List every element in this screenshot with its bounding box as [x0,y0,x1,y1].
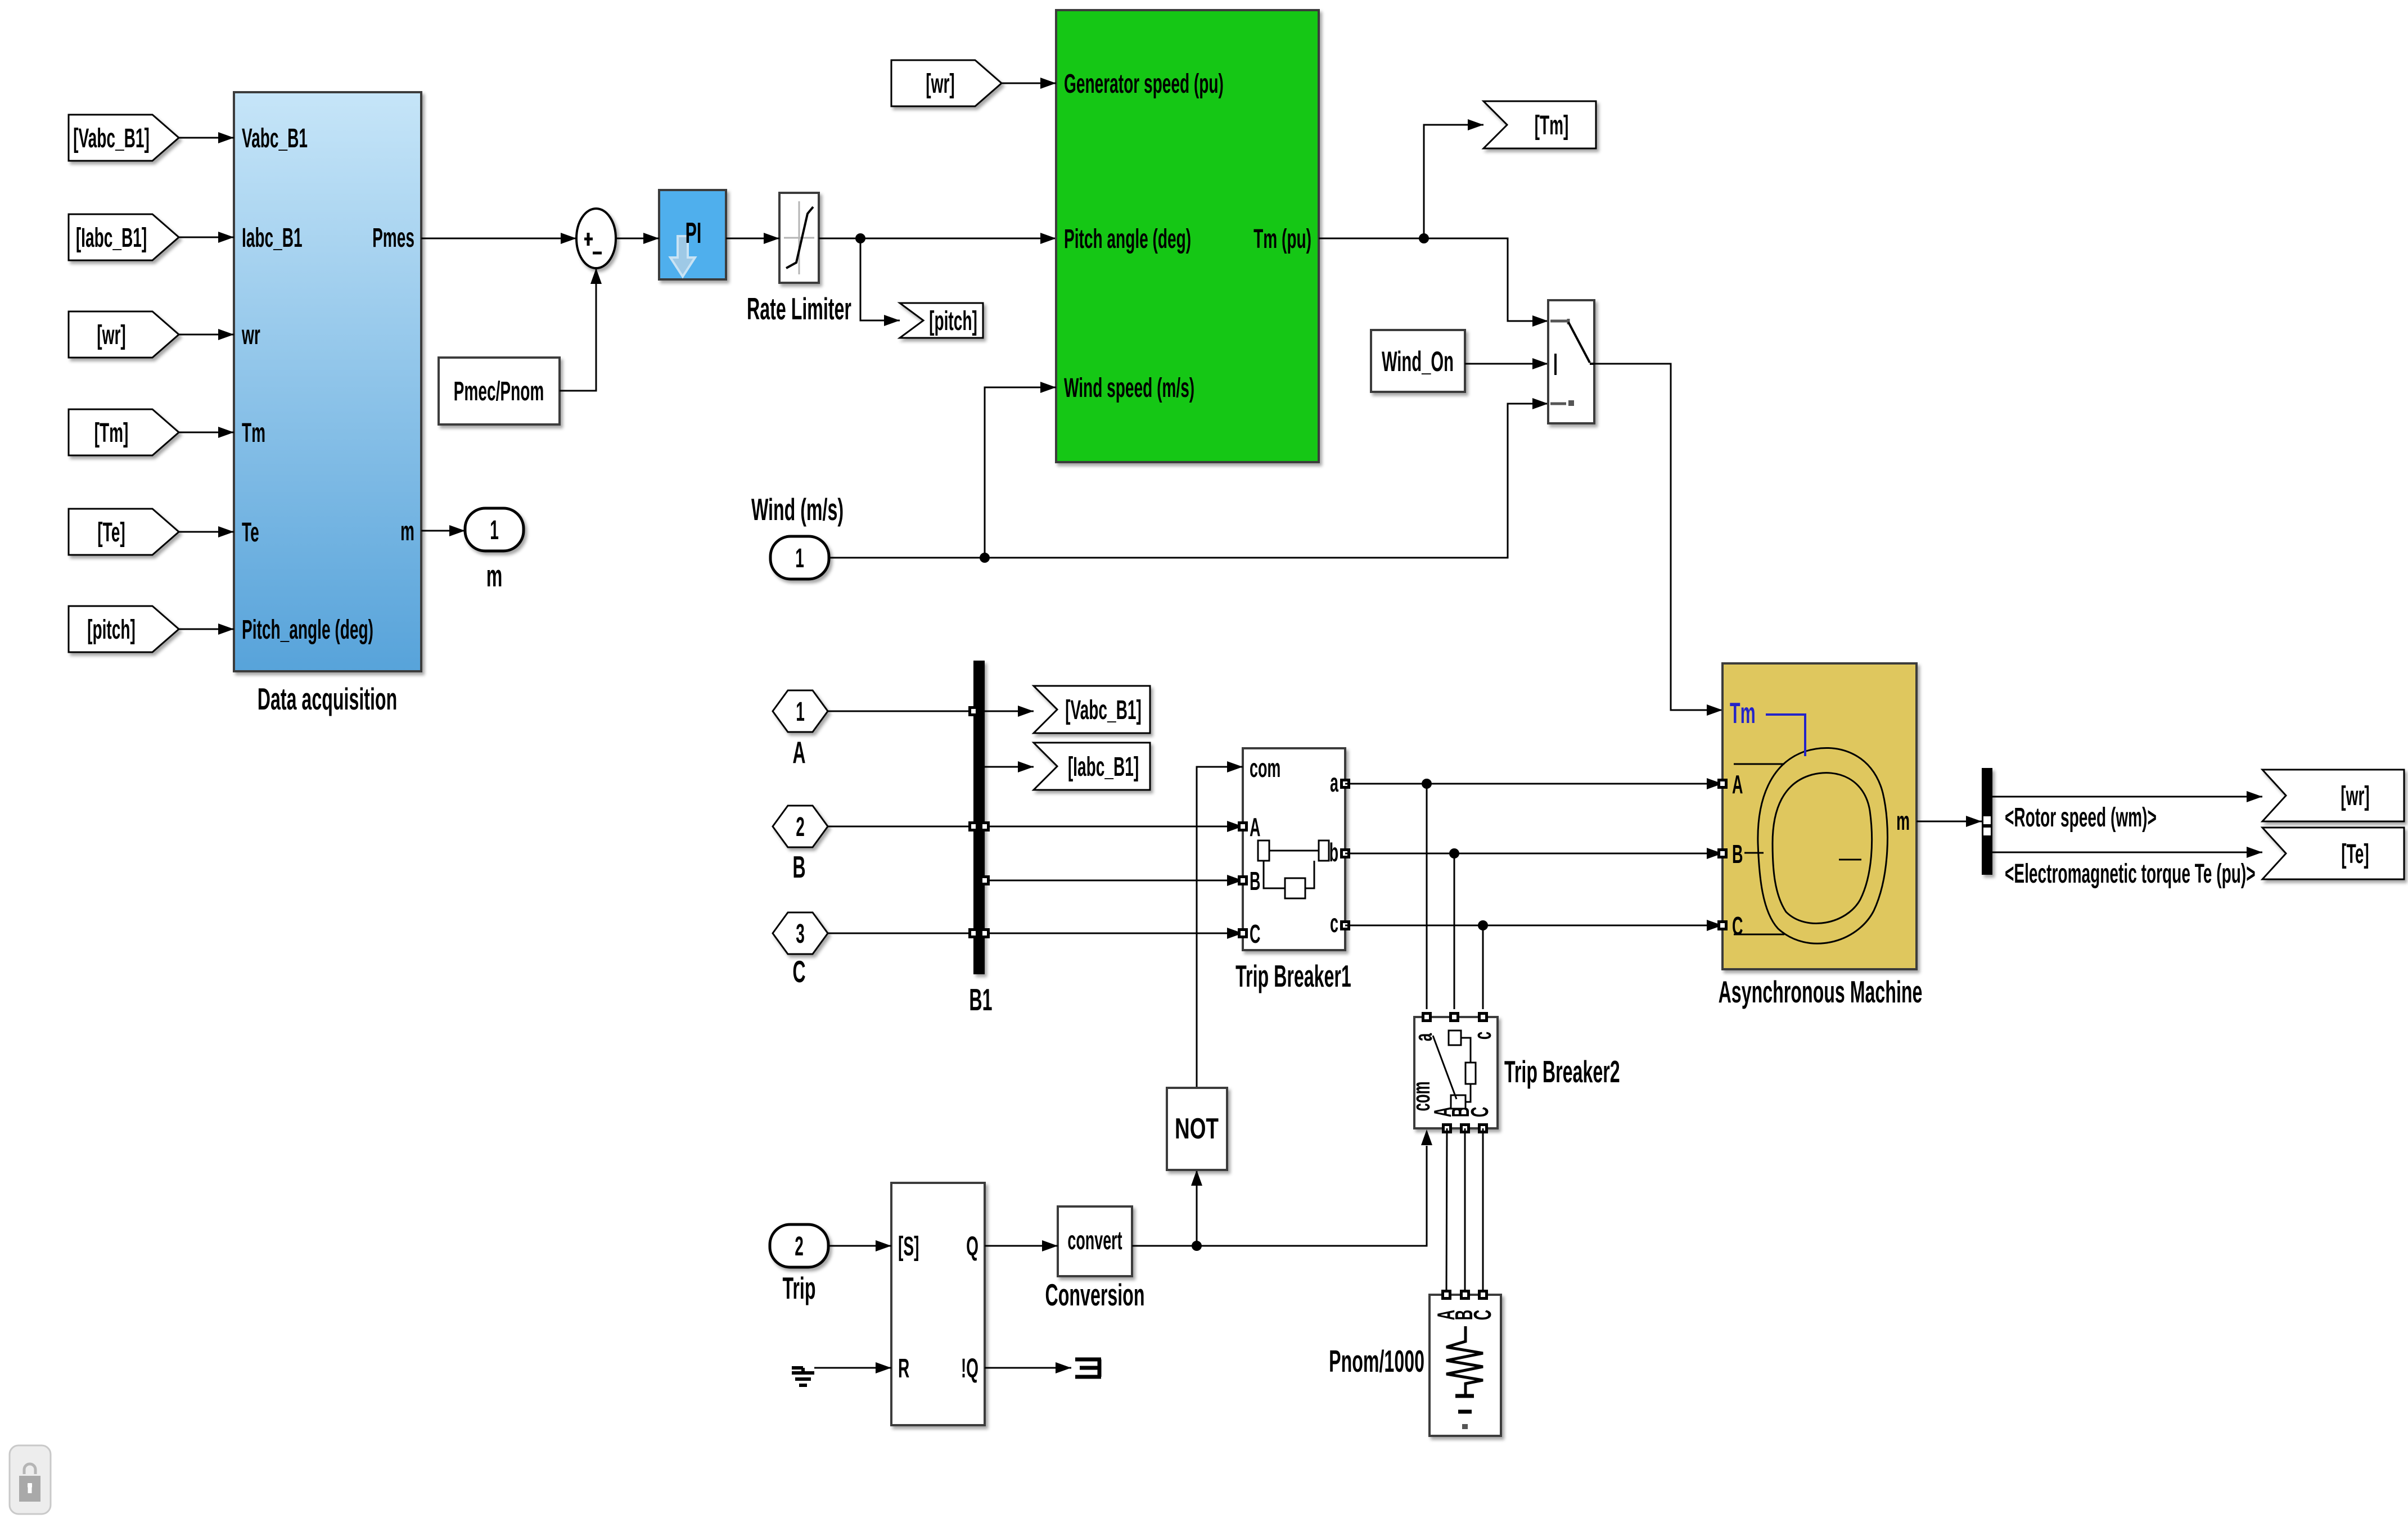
svg-text:Wind speed (m/s): Wind speed (m/s) [1064,373,1194,403]
svg-text:R: R [898,1353,909,1384]
wire Trip Breaker2 A to load [1446,1128,1447,1295]
outport 1 m [465,508,524,551]
svg-text:Data acquisition: Data acquisition [258,681,397,716]
wire Q to Conversion [985,1245,1058,1247]
svg-text:3: 3 [796,919,805,949]
wire junction to goto [Tm] [1424,125,1483,238]
subsystem block Data acquisition [234,92,421,671]
wire [wr] to Generator speed [1002,83,1056,84]
svg-text:com: com [1250,753,1280,782]
Three-Phase load block Pnom/1000 [1430,1295,1501,1436]
junction Tm output [1419,233,1429,243]
inport A hexagon 1 [773,690,828,732]
Trip Breaker2 icon [1449,1031,1461,1045]
load resistor icon [1446,1326,1483,1395]
wire [Vabc_B1] to Data acquisition [179,137,234,139]
lock icon [10,1445,51,1514]
Data Type Conversion block [1058,1206,1132,1276]
NOT logical operator block [1167,1088,1227,1170]
from tag [wr] [69,311,179,358]
svg-text:A: A [1250,812,1260,841]
svg-text:C: C [1732,911,1743,940]
Trip Breaker2 port squares [1422,1012,1432,1022]
Trip Breaker2 block [1414,1017,1498,1128]
svg-text:Trip Breaker1: Trip Breaker1 [1235,959,1351,993]
wire B1 to goto [Vabc_B1] [985,711,1034,712]
svg-text:1: 1 [795,543,804,573]
wire Trip Breaker1 c to machine C [1345,925,1722,927]
Trip Breaker1 port squares [1238,821,1248,831]
wire Trip Breaker2 C to load [1482,1128,1484,1295]
svg-text:C: C [1468,1310,1496,1321]
wire junction a to Trip Breaker2 [1426,784,1428,1009]
bus selector bar [1982,768,1992,875]
svg-text:Tm: Tm [1730,697,1756,730]
svg-text:B: B [792,849,805,884]
goto tag [Vabc_B1] [1034,686,1150,733]
svg-text:[wr]: [wr] [2341,781,2369,811]
goto tag [Te] right [2262,828,2404,879]
svg-text:B1: B1 [969,982,992,1017]
svg-text:PI: PI [686,217,702,250]
svg-text:c: c [1330,909,1338,937]
svg-text:A: A [1732,770,1743,798]
svg-text:C: C [792,954,805,989]
svg-text:[Iabc_B1]: [Iabc_B1] [1068,752,1139,782]
svg-text:[Te]: [Te] [97,517,125,548]
constant block Wind_On [1371,330,1465,392]
wire Data acquisition m to outport [421,530,465,532]
from tag [Tm] [69,409,179,455]
from tag [wr] top [891,60,1002,106]
svg-text:[Iabc_B1]: [Iabc_B1] [76,223,147,253]
wire [wr] to Data acquisition [179,334,234,336]
wire bus selector to goto [Te] [1992,852,2262,853]
svg-text:Wind (m/s): Wind (m/s) [751,492,844,527]
goto tag [pitch] [900,303,983,338]
terminator on !Q [985,1367,1071,1369]
junction on wind wire [980,553,990,563]
machine Tm label and blue lead [1730,697,1756,730]
Trip Breaker2 rotated labels [1409,1033,1437,1041]
wire Wind to Wind speed port and switch [829,404,1548,558]
wire C to B1 [828,933,973,934]
svg-text:Tm (pu): Tm (pu) [1253,224,1311,254]
svg-text:m: m [1896,806,1910,835]
svg-text:C: C [1465,1107,1494,1118]
switch block [1548,300,1594,423]
svg-text:com: com [1407,1082,1435,1111]
svg-text:Conversion: Conversion [1045,1277,1145,1312]
svg-text:a: a [1330,768,1339,797]
S-R flip-flop block [891,1183,985,1425]
svg-text:Te: Te [242,517,259,548]
svg-text:Pmes: Pmes [372,223,414,253]
goto tag [wr] right [2262,770,2404,821]
wire switch output to Asynchronous Machine Tm [1594,364,1722,710]
load rotated labels [1432,1310,1460,1321]
wire Trip to S input [828,1245,891,1247]
svg-text:Trip: Trip [783,1271,816,1305]
Asynchronous Machine block [1722,663,1917,969]
wire A to B1 [828,711,973,712]
bus bar B1 [973,661,985,974]
wire B to B1 [828,826,973,828]
svg-text:<Electromagnetic torque Te (pu: <Electromagnetic torque Te (pu)> [2005,858,2256,889]
svg-text:B: B [1732,839,1743,868]
svg-text:2: 2 [796,812,805,842]
inport 2 Trip [770,1224,828,1267]
svg-text:Iabc_B1: Iabc_B1 [242,223,303,253]
sum block [576,209,616,268]
wire bus selector to goto [wr] [1992,796,2262,798]
wire junction c to Trip Breaker2 [1482,925,1484,1009]
svg-text:wr: wr [241,320,260,350]
wire Tm (pu) output [1319,238,1548,321]
svg-text:<Rotor speed (wm)>: <Rotor speed (wm)> [2005,802,2157,833]
wire NOT to Trip Breaker1 com [1197,767,1243,1088]
Trip Breaker1 icon [1258,840,1269,861]
svg-text:A: A [792,735,805,770]
inport B hexagon 2 [773,806,828,847]
machine port labels [1732,770,1743,798]
svg-text:[Vabc_B1]: [Vabc_B1] [1065,695,1142,725]
wire PI to Rate Limiter [726,238,779,239]
load port squares [1441,1290,1451,1300]
svg-text:[Tm]: [Tm] [94,418,129,448]
wire Pmec/Pnom to sum [560,268,596,391]
wire [pitch] to Data acquisition [179,629,234,630]
wire Pmes to sum [421,238,576,239]
svg-text:1: 1 [490,515,499,545]
svg-text:Generator speed (pu): Generator speed (pu) [1064,69,1224,99]
svg-text:[wr]: [wr] [926,69,954,99]
wire B1 to Trip Breaker1 C [985,933,1243,934]
svg-text:[pitch]: [pitch] [87,614,136,645]
junction below NOT [1192,1241,1202,1251]
wire Trip Breaker1 a to machine A [1345,783,1722,785]
svg-text:[Te]: [Te] [2341,839,2369,869]
svg-text:Trip Breaker2: Trip Breaker2 [1504,1054,1620,1089]
goto tag [Iabc_B1] [1034,743,1150,790]
svg-text:!Q: !Q [961,1353,978,1384]
svg-text:NOT: NOT [1175,1112,1219,1145]
svg-text:Rate Limiter: Rate Limiter [747,291,851,326]
svg-text:Q: Q [966,1231,978,1262]
svg-text:1: 1 [796,697,805,727]
wire [Iabc_B1] to Data acquisition [179,237,234,238]
svg-text:m: m [400,516,414,546]
Trip Breaker1 block [1243,748,1345,950]
svg-text:B: B [1250,866,1260,895]
wire Trip Breaker2 B to load [1464,1128,1466,1295]
svg-text:[Vabc_B1]: [Vabc_B1] [73,123,150,153]
svg-text:m: m [486,558,503,593]
wire machine m to bus selector [1917,821,1982,822]
junction c [1478,920,1488,930]
wire Trip Breaker1 b to machine B [1345,853,1722,855]
from tag [Iabc_B1] [69,214,179,260]
machine rotor stator icon [1758,748,1888,943]
wire [Te] to Data acquisition [179,531,234,533]
wire B1 to goto [Iabc_B1] [985,766,1034,768]
wire junction to NOT [1196,1170,1198,1246]
from tag [Te] [69,509,179,555]
junction b [1449,848,1459,858]
svg-text:[pitch]: [pitch] [929,306,977,336]
wire Conversion to Trip Breaker2 com [1132,1146,1427,1246]
inport C hexagon 3 [773,912,828,954]
wire junction b to Trip Breaker2 [1454,853,1455,1009]
wire junction to goto [pitch] [860,238,900,320]
svg-text:C: C [1250,919,1260,948]
wire Rate Limiter to Pitch angle port [819,238,1056,239]
PI controller block [659,190,726,279]
Rate Limiter block [779,193,819,283]
junction a [1422,779,1432,789]
svg-text:2: 2 [795,1231,804,1262]
svg-text:Vabc_B1: Vabc_B1 [242,123,308,153]
wire ground to R input [814,1367,891,1369]
svg-text:Pmec/Pnom: Pmec/Pnom [454,376,544,406]
svg-text:Tm: Tm [242,418,265,448]
svg-text:[S]: [S] [898,1231,919,1262]
wire wind junction up to Wind speed port [985,387,1056,558]
wire sum to PI [616,238,659,239]
machine port squares [1717,779,1728,789]
ground block [792,1368,814,1385]
wire B1 to Trip Breaker1 A [985,826,1243,828]
svg-text:Wind_On: Wind_On [1382,346,1454,377]
svg-text:Asynchronous Machine: Asynchronous Machine [1719,974,1923,1009]
from tag [pitch] [69,606,179,652]
goto tag [Tm] [1483,101,1596,148]
svg-text:[Tm]: [Tm] [1535,110,1569,141]
svg-text:convert: convert [1067,1226,1122,1254]
Wind Turbine block (green) [1056,10,1319,462]
junction after Rate Limiter [855,233,865,243]
from tag [Vabc_B1] [69,115,179,161]
inport 1 Wind (m/s) [751,492,844,527]
svg-text:Pnom/1000: Pnom/1000 [1329,1344,1424,1379]
svg-text:c: c [1468,1032,1496,1040]
svg-text:[wr]: [wr] [97,320,125,350]
wire B1 to Trip Breaker1 B [985,880,1243,882]
svg-text:b: b [1329,838,1338,866]
svg-text:Pitch angle (deg): Pitch angle (deg) [1064,224,1191,254]
constant block Pmec/Pnom [439,358,560,424]
wire [Tm] to Data acquisition [179,432,234,433]
svg-text:Pitch_angle (deg): Pitch_angle (deg) [242,614,373,645]
wire Wind_On to switch [1465,363,1548,365]
